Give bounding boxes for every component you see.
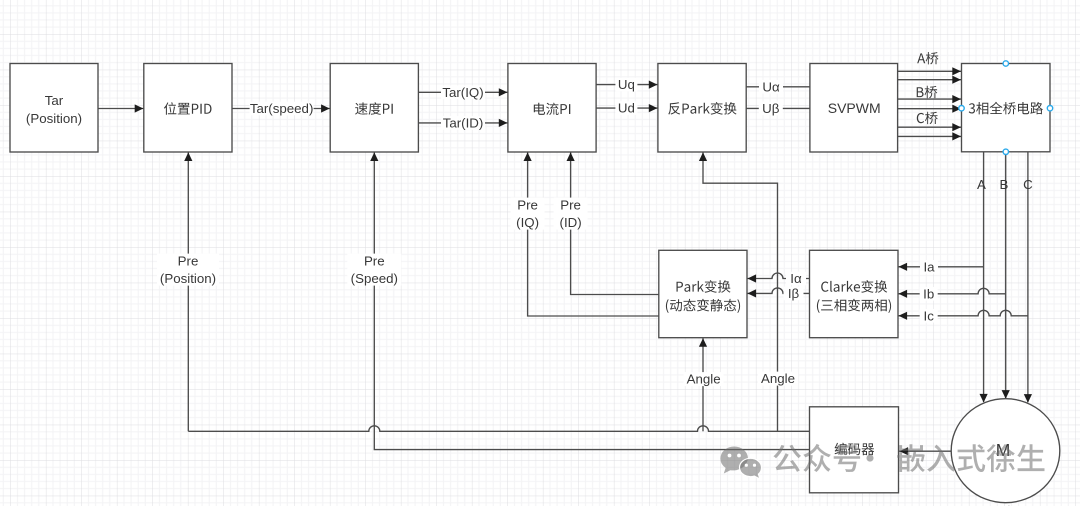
- label Ialpha: [786, 272, 806, 286]
- svg-text:Pre: Pre: [364, 254, 385, 269]
- block 速度PI: [330, 64, 418, 153]
- label Ib: [920, 287, 938, 301]
- svg-text:Tar(IQ): Tar(IQ): [442, 85, 483, 100]
- motor M circle: [951, 399, 1060, 503]
- svg-text:A: A: [977, 177, 986, 192]
- svg-text:Ic: Ic: [924, 308, 935, 323]
- wire Ualpha 反Park变换 to SVPWM: [746, 86, 810, 88]
- svg-text:SVPWM: SVPWM: [828, 100, 881, 116]
- watermark wechat icon: [720, 446, 761, 479]
- label Ia: [920, 260, 938, 274]
- svg-text:(Speed): (Speed): [351, 271, 398, 286]
- wire phase C vertical to motor: [1027, 152, 1029, 402]
- node handle top of 3相全桥电路: [1003, 61, 1008, 66]
- label Ic: [920, 309, 938, 323]
- svg-text:Pre: Pre: [178, 254, 199, 269]
- wire motor to encoder: [899, 450, 951, 452]
- svg-text:Pre: Pre: [560, 198, 581, 213]
- svg-text:Ia: Ia: [923, 259, 935, 274]
- svg-text:Tar(speed): Tar(speed): [250, 101, 314, 116]
- wire Ibeta Clarke to Park: [747, 288, 809, 294]
- label Tar(IQ): [441, 86, 485, 100]
- svg-text:Tar(ID): Tar(ID): [443, 116, 484, 131]
- wire Tar to 位置PID: [98, 108, 144, 110]
- wire Ialpha Clarke to Park: [747, 273, 809, 279]
- svg-text:Uβ: Uβ: [762, 101, 780, 116]
- label C桥: [917, 112, 938, 124]
- block 电流PI: [508, 64, 596, 153]
- wire SVPWM bridge line 4: [898, 108, 962, 110]
- svg-text:Ib: Ib: [923, 286, 934, 301]
- wire Tar(ID) 速度PI to 电流PI: [418, 122, 508, 124]
- svg-text:Angle: Angle: [687, 372, 721, 387]
- label B桥: [917, 86, 938, 98]
- wire SVPWM bridge line 2: [898, 79, 962, 81]
- svg-text:Iα: Iα: [790, 271, 802, 286]
- svg-text:(ID): (ID): [560, 215, 582, 230]
- block Tar(Position): [10, 64, 98, 153]
- label Pre(Speed): [347, 254, 401, 286]
- svg-text:C: C: [1023, 177, 1033, 192]
- block Park变换(动态变静态): [659, 250, 747, 337]
- label Tar(speed): [250, 102, 314, 116]
- svg-text:B: B: [999, 177, 1008, 192]
- node handle bottom of 3相全桥电路: [1003, 149, 1008, 154]
- label Angle at 反Park: [758, 372, 798, 386]
- label Pre(Position): [157, 254, 219, 286]
- wire SVPWM bridge line 5: [898, 126, 962, 128]
- label Pre(IQ): [511, 198, 545, 230]
- block 位置PID: [144, 64, 232, 153]
- wire Ic phase C to Clarke: [898, 310, 1028, 316]
- wire Ud 电流PI to 反Park变换: [596, 107, 658, 109]
- node handle right of 3相全桥电路: [1047, 106, 1052, 111]
- label Ud: [615, 101, 637, 115]
- svg-text:Uα: Uα: [762, 79, 780, 94]
- wire Angle branch to Park变换: [702, 338, 704, 431]
- label Ualpha: [759, 80, 783, 94]
- wire Ubeta 反Park变换 to SVPWM: [746, 107, 810, 109]
- block SVPWM: [810, 64, 898, 153]
- svg-text:(Position): (Position): [26, 111, 82, 126]
- wire Pre(IQ) Park to 电流PI: [528, 152, 659, 316]
- svg-text:Iβ: Iβ: [788, 286, 800, 301]
- label A桥: [917, 52, 938, 64]
- watermark text 公众号·嵌入式徐生: [773, 444, 1065, 506]
- node handle left of 3相全桥电路: [959, 106, 964, 111]
- wire Tar(IQ) 速度PI to 电流PI: [418, 91, 508, 93]
- wire SVPWM bridge line 3: [898, 98, 962, 100]
- label Ubeta: [759, 102, 783, 116]
- wire Pre(ID) Park to 电流PI: [571, 152, 659, 294]
- svg-text:Pre: Pre: [517, 198, 538, 213]
- label Ibeta: [784, 287, 804, 301]
- label Tar(ID): [441, 116, 485, 130]
- wire feedback encoder to 位置PID Pre(Position): [188, 426, 809, 432]
- block 3相全桥电路: [962, 64, 1051, 152]
- label Pre(ID): [554, 198, 588, 230]
- wire phase B vertical to motor: [1005, 152, 1007, 398]
- wire SVPWM bridge line 6: [898, 135, 962, 137]
- svg-text:Ud: Ud: [618, 101, 635, 116]
- svg-text:(IQ): (IQ): [516, 215, 539, 230]
- block 反Park变换: [658, 64, 746, 153]
- block 编码器: [810, 407, 899, 493]
- svg-text:(Position): (Position): [160, 271, 216, 286]
- wire Uq 电流PI to 反Park变换: [596, 84, 658, 86]
- label Uq: [615, 78, 637, 92]
- svg-text:Angle: Angle: [761, 371, 795, 386]
- wire Ia phase A to Clarke: [898, 266, 984, 268]
- block Clarke变换(三相变两相): [810, 250, 899, 337]
- wire phase A vertical to motor: [983, 152, 985, 402]
- wire feedback encoder to 速度PI Pre(Speed): [374, 152, 809, 449]
- wire Tar(speed) 位置PID to 速度PI: [232, 108, 330, 110]
- wire Angle branch to 反Park变换: [703, 152, 778, 431]
- wire SVPWM bridge line 1: [898, 70, 962, 72]
- wire Ib phase B to Clarke: [898, 288, 1006, 294]
- svg-text:Uq: Uq: [618, 77, 635, 92]
- watermark cut-off second row bottom right: [965, 505, 1052, 506]
- label Angle at Park: [684, 372, 724, 386]
- svg-text:Tar: Tar: [45, 93, 64, 108]
